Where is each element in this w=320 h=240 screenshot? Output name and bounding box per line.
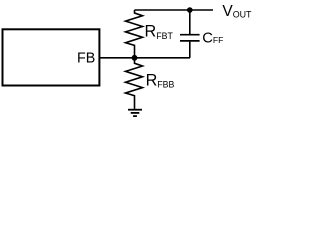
svg-text:FB: FB [77,51,95,67]
ground [128,110,142,116]
wire FB to divider node [99,57,190,59]
capacitor CFF top lead [189,10,191,34]
resistor RFBB [126,58,143,109]
op-amp U1 (IC block with FB pin) [3,29,100,85]
capacitor CFF bottom lead [189,42,191,58]
resistor RFBT [126,10,143,58]
wire top rail [135,9,214,11]
capacitor CFF plates [180,34,200,36]
node FB junction [132,55,138,61]
node VOUT junction [187,7,193,13]
